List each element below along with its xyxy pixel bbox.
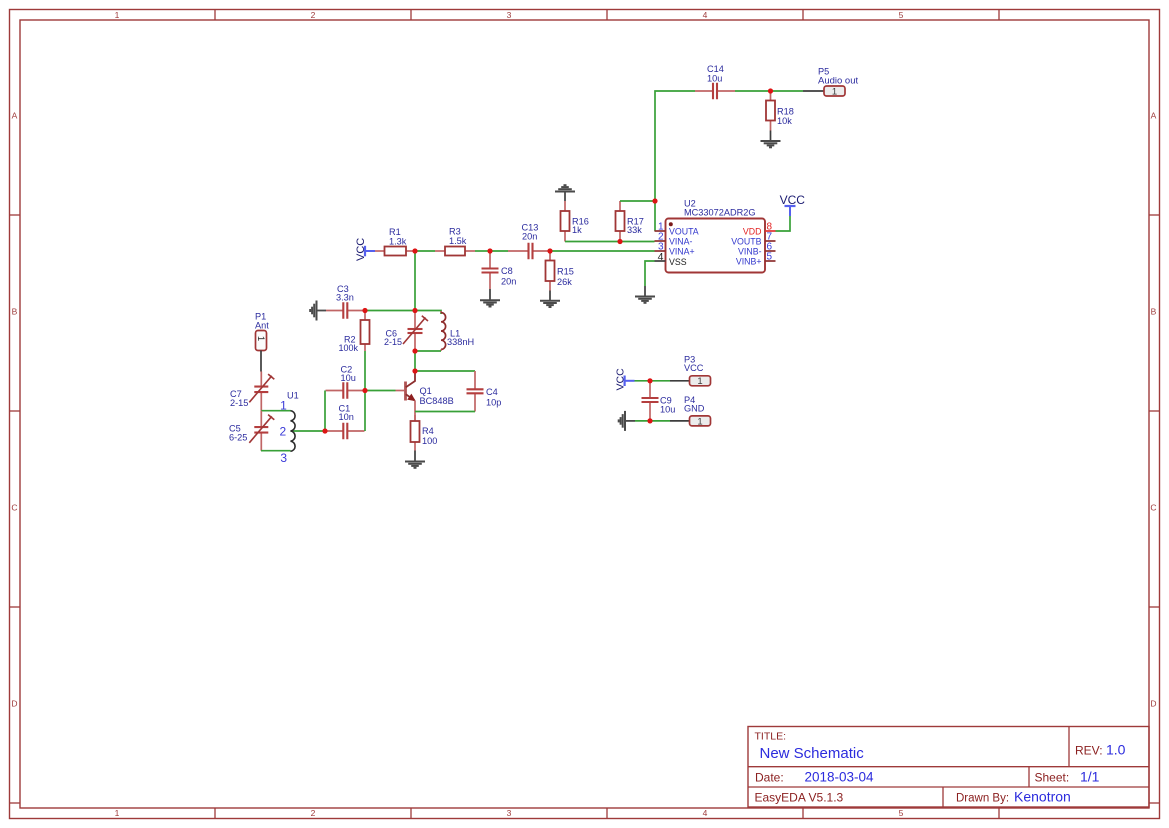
svg-text:5: 5	[899, 808, 904, 818]
svg-text:Sheet:: Sheet:	[1035, 771, 1070, 785]
wire C1 right riser to base node	[364, 391, 366, 432]
svg-text:4: 4	[658, 251, 664, 263]
wire tank bottom to collector node	[414, 351, 416, 371]
svg-text:10u: 10u	[707, 74, 722, 84]
svg-text:2-15: 2-15	[230, 398, 248, 408]
svg-text:10k: 10k	[777, 116, 792, 126]
wire U2 pin8 to VCC flag	[776, 216, 791, 231]
wire C5 to U1 pin3	[261, 450, 291, 452]
ground above R16 (flipped)	[555, 185, 575, 201]
svg-text:MC33072ADR2G: MC33072ADR2G	[684, 207, 756, 217]
wire C8 node to C13	[490, 250, 508, 252]
power flag VCC at P3	[615, 368, 635, 391]
svg-text:VDD: VDD	[743, 226, 762, 236]
wire R2 bottom to base node	[364, 351, 366, 391]
svg-text:3.3n: 3.3n	[336, 293, 354, 303]
variable capacitor C5	[249, 411, 274, 451]
inductor L1	[441, 311, 446, 351]
svg-text:1k: 1k	[572, 225, 582, 235]
svg-text:1.3k: 1.3k	[389, 237, 407, 247]
wire R17 top to OUT riser	[620, 200, 655, 202]
wire C4 bottom to emitter	[415, 411, 475, 413]
svg-text:10p: 10p	[486, 398, 501, 408]
capacitor C9	[642, 381, 659, 421]
connector P4 pin 1	[690, 416, 711, 427]
svg-text:100: 100	[422, 436, 437, 446]
resistor R15	[546, 251, 555, 291]
ground under R15	[549, 291, 551, 301]
wire junction to P5	[771, 90, 804, 92]
wire ground to P4	[635, 420, 670, 422]
svg-text:R4: R4	[422, 426, 434, 436]
svg-text:3: 3	[507, 808, 512, 818]
junction dots overlay	[322, 88, 773, 433]
svg-text:VINB-: VINB-	[738, 246, 762, 256]
wire C7 to U1 pin1	[261, 410, 291, 412]
svg-text:1: 1	[115, 808, 120, 818]
svg-text:20n: 20n	[501, 277, 516, 287]
svg-text:VCC: VCC	[684, 363, 704, 373]
svg-text:Q1: Q1	[420, 386, 432, 396]
capacitor C3	[326, 302, 365, 319]
U2 pin names right (VDD VOUTB VINB- VINB+)	[731, 226, 761, 266]
svg-text:Date:: Date:	[755, 771, 784, 785]
resistor R16	[561, 201, 570, 242]
svg-text:33k: 33k	[627, 225, 642, 235]
svg-text:1: 1	[115, 10, 120, 20]
variable capacitor C6	[403, 311, 428, 352]
svg-text:VOUTB: VOUTB	[731, 236, 761, 246]
capacitor C4	[467, 371, 484, 412]
svg-text:10u: 10u	[341, 373, 356, 383]
resistor R17	[616, 201, 625, 242]
variable capacitor C7	[249, 372, 274, 411]
svg-text:5: 5	[767, 252, 773, 263]
svg-text:1: 1	[255, 336, 266, 341]
svg-text:1: 1	[832, 86, 837, 97]
wire VOUTA riser vertical (node OUT)	[655, 91, 695, 231]
svg-text:4: 4	[703, 10, 708, 20]
resistor R18	[766, 91, 775, 131]
wire R3 to C8 node	[475, 250, 490, 252]
svg-text:BC848B: BC848B	[420, 396, 454, 406]
svg-text:R18: R18	[777, 107, 794, 117]
svg-text:10n: 10n	[339, 412, 354, 422]
svg-text:R15: R15	[557, 267, 574, 277]
svg-text:1: 1	[697, 416, 702, 427]
ground under C8	[489, 289, 491, 300]
wire U2 pin4 VSS to ground	[645, 261, 655, 286]
svg-text:VOUTA: VOUTA	[669, 226, 699, 236]
wire U1 pin2 to junction	[291, 430, 326, 432]
svg-text:D: D	[1150, 699, 1156, 709]
svg-text:D: D	[11, 699, 17, 709]
svg-text:1.0: 1.0	[1106, 742, 1126, 758]
svg-text:338nH: 338nH	[447, 337, 474, 347]
svg-text:10u: 10u	[660, 405, 675, 415]
ground under R4	[414, 451, 416, 462]
ground left of C3 (sideways)	[310, 301, 326, 321]
op-amp U2 body	[655, 219, 776, 273]
svg-text:REV:: REV:	[1075, 744, 1103, 758]
title block	[748, 727, 1149, 808]
coil U1 (tapped inductor)	[291, 411, 296, 452]
svg-text:26k: 26k	[557, 277, 572, 287]
svg-text:6-25: 6-25	[229, 433, 247, 443]
svg-text:U1: U1	[287, 391, 299, 401]
svg-text:5: 5	[899, 10, 904, 20]
svg-text:3: 3	[507, 10, 512, 20]
wire L1 bottom to tank bottom node	[415, 350, 441, 352]
wire tank top to L1	[415, 311, 441, 315]
svg-text:TITLE:: TITLE:	[755, 731, 787, 743]
capacitor C13	[508, 243, 550, 260]
svg-text:EasyEDA V5.1.3: EasyEDA V5.1.3	[755, 791, 844, 805]
wire base node to Q1 base	[365, 390, 396, 392]
svg-text:2: 2	[280, 424, 287, 438]
svg-text:Ant: Ant	[255, 321, 269, 331]
capacitor C2	[326, 382, 366, 399]
svg-text:B: B	[12, 307, 18, 317]
svg-text:20n: 20n	[522, 232, 537, 242]
power flag VCC left	[355, 238, 375, 261]
svg-text:C8: C8	[501, 266, 513, 276]
wire R16 to U2 pin2 (VINA- net)	[565, 241, 655, 243]
power flag VCC right	[780, 193, 806, 216]
svg-text:Kenotron: Kenotron	[1014, 789, 1071, 805]
svg-text:A: A	[1151, 111, 1157, 121]
svg-text:Drawn By:: Drawn By:	[956, 793, 1009, 805]
ground left of P4 row	[619, 411, 635, 431]
wire C14 to R18/P5 node	[735, 90, 771, 92]
svg-text:2: 2	[311, 10, 316, 20]
wire C13/R15 node to U2 pin3	[550, 250, 655, 252]
svg-text:VSS: VSS	[669, 257, 687, 267]
svg-text:C4: C4	[486, 387, 498, 397]
svg-text:2018-03-04: 2018-03-04	[805, 770, 875, 785]
resistor R3	[435, 247, 475, 256]
gray link to P4	[670, 420, 690, 422]
gray link to P5	[803, 90, 824, 92]
resistor R2	[361, 311, 370, 352]
svg-text:C: C	[11, 503, 17, 513]
connector P3 pin 1	[690, 376, 711, 387]
svg-text:C14: C14	[707, 64, 724, 74]
connector P1 pin 1 (vertical pad)	[255, 331, 267, 351]
resistor R4	[411, 415, 420, 451]
svg-text:2-15: 2-15	[384, 337, 402, 347]
gray link to P3	[670, 380, 690, 382]
wire C2 left riser down to C1	[324, 391, 326, 432]
wire riser from main row down to tank	[414, 251, 416, 311]
resistor R1	[375, 247, 415, 256]
wire R1 to R3	[415, 250, 435, 252]
svg-text:1.5k: 1.5k	[449, 236, 467, 246]
svg-text:VINA-: VINA-	[669, 236, 693, 246]
capacitor C8	[482, 251, 499, 289]
svg-text:1: 1	[697, 376, 702, 387]
U2 pin numbers left (1 2 3 4)	[658, 222, 664, 264]
svg-text:Audio out: Audio out	[818, 76, 859, 87]
svg-text:VINA+: VINA+	[669, 246, 695, 256]
svg-text:3: 3	[280, 451, 287, 465]
svg-text:GND: GND	[684, 404, 705, 414]
capacitor C14	[695, 83, 735, 100]
wire C3 node to riser node	[365, 310, 415, 312]
svg-text:A: A	[12, 111, 18, 121]
svg-text:4: 4	[703, 808, 708, 818]
transistor Q1 (NPN)	[396, 371, 416, 421]
svg-text:1/1: 1/1	[1080, 769, 1100, 785]
capacitor C1	[326, 423, 365, 440]
svg-text:VINB+: VINB+	[736, 256, 762, 266]
U2 pin names left (VOUTA VINA- VINA+ VSS)	[669, 226, 699, 266]
ground under R18	[770, 131, 772, 141]
connector P5 pin 1	[824, 86, 845, 97]
svg-text:New Schematic: New Schematic	[760, 745, 865, 762]
svg-text:B: B	[1151, 307, 1157, 317]
svg-text:C: C	[1150, 503, 1156, 513]
wire collector node to C4 top	[415, 370, 475, 372]
svg-text:R3: R3	[449, 227, 461, 237]
gray link P1 to C7	[260, 351, 262, 372]
svg-text:100k: 100k	[338, 343, 358, 353]
wire VCC flag to P3	[635, 380, 671, 382]
ground at VSS	[644, 286, 646, 296]
U2 pin numbers right (8 7 6 5)	[767, 222, 773, 263]
svg-text:R1: R1	[389, 227, 401, 237]
svg-text:2: 2	[311, 808, 316, 818]
